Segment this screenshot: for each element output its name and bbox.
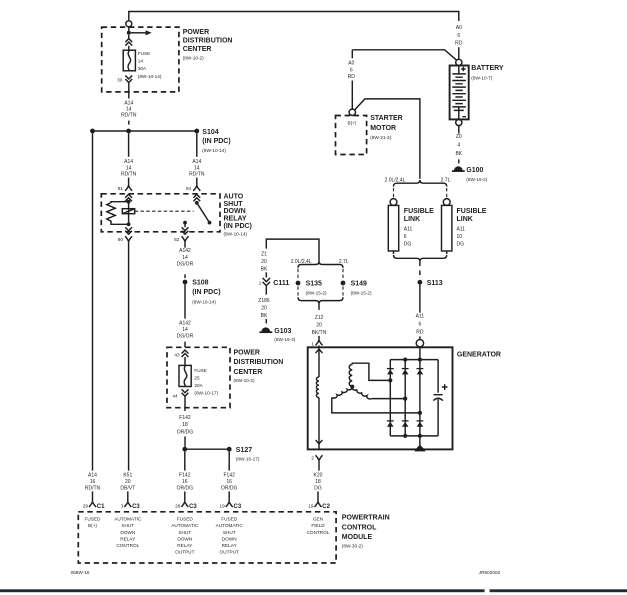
svg-text:FUSIBLE: FUSIBLE — [404, 208, 434, 215]
svg-text:S135: S135 — [306, 281, 322, 288]
rectifier leg 3 / output — [419, 347, 421, 449]
svg-text:DB/VT: DB/VT — [120, 485, 135, 491]
svg-text:OUTPUT: OUTPUT — [220, 550, 239, 555]
wire A14 14 RD/TN from PDC to S104 — [128, 83, 130, 99]
wire K51 20 DB/VT relay pin 80 to PCM — [128, 242, 130, 471]
svg-text:A11: A11 — [416, 313, 425, 319]
svg-text:19: 19 — [308, 504, 314, 509]
fusible link A11 10 DG — [443, 199, 450, 206]
auto shut down relay box (IN PDC) — [101, 194, 220, 232]
svg-text:BK: BK — [455, 151, 462, 157]
diode D3 — [417, 369, 424, 375]
svg-text:20: 20 — [261, 259, 267, 265]
generator pin 2 connector — [316, 455, 323, 461]
svg-text:K51: K51 — [123, 473, 132, 479]
svg-text:FUSED: FUSED — [221, 517, 238, 522]
splice S127 bus — [185, 448, 229, 450]
PCM pin 19 C2 connector — [315, 501, 322, 507]
PCM pin 3 function label — [114, 517, 142, 548]
wire F142 16 OR/DG S127 to PCM pin 19 — [228, 452, 230, 471]
fusible link A11 6 DG — [390, 199, 397, 206]
svg-text:(IN PDC): (IN PDC) — [202, 138, 230, 145]
svg-text:(8W-10-14): (8W-10-14) — [224, 231, 248, 236]
capacitor + sign — [442, 384, 448, 390]
svg-text:2.7L: 2.7L — [441, 177, 451, 183]
svg-text:1: 1 — [259, 281, 262, 286]
splice S113 — [418, 280, 423, 285]
svg-text:DG: DG — [457, 241, 465, 247]
wire Z186 20 BK — [265, 286, 267, 294]
svg-text:(8W-15-2): (8W-15-2) — [351, 291, 372, 296]
stator winding top branch — [352, 363, 388, 380]
svg-text:82: 82 — [174, 237, 180, 242]
connection loop Z1 to splice network — [266, 239, 319, 261]
svg-text:OR/DG: OR/DG — [177, 429, 194, 435]
relay switch blade — [197, 203, 210, 223]
svg-text:068W-16: 068W-16 — [71, 570, 90, 575]
junction dot S104 — [194, 129, 199, 134]
svg-text:2.7L: 2.7L — [339, 259, 349, 265]
svg-text:S108: S108 — [192, 280, 208, 287]
svg-text:(8W-10-2): (8W-10-2) — [183, 55, 204, 60]
fuse output chevrons — [125, 76, 132, 83]
svg-text:AUTO: AUTO — [224, 193, 244, 200]
junction dot middle — [126, 129, 131, 134]
svg-text:20A: 20A — [194, 383, 203, 388]
relay coil box — [122, 209, 134, 214]
svg-text:A14: A14 — [88, 473, 97, 479]
ground G103 — [259, 327, 272, 332]
junction dot left — [90, 129, 95, 134]
connector chevrons into fuse — [125, 39, 132, 46]
svg-text:FUSED: FUSED — [85, 517, 102, 522]
svg-text:16: 16 — [90, 479, 96, 485]
svg-text:6: 6 — [419, 321, 422, 327]
svg-text:S113: S113 — [427, 280, 443, 287]
merge brace to Z12 — [298, 297, 343, 304]
svg-text:STARTER: STARTER — [370, 115, 403, 122]
svg-text:RD/TN: RD/TN — [85, 485, 101, 491]
svg-text:20: 20 — [125, 479, 131, 485]
svg-text:BK: BK — [261, 266, 268, 272]
diode D1 — [387, 369, 394, 375]
svg-text:A14: A14 — [192, 159, 201, 165]
wire F142 18 OR/DG fuse to S127 — [184, 396, 186, 411]
capacitor plates — [434, 394, 443, 396]
svg-text:DOWN: DOWN — [120, 530, 135, 535]
PCM pin 19 C3 function label — [216, 517, 244, 555]
PDC2 pin 43 chevrons — [182, 350, 189, 357]
svg-text:2.0L/2.4L: 2.0L/2.4L — [385, 177, 406, 183]
relay pin 81 terminal chevrons — [125, 194, 132, 201]
svg-text:(8W-10-14): (8W-10-14) — [138, 74, 162, 79]
svg-text:CENTER: CENTER — [234, 369, 263, 376]
svg-text:C1: C1 — [97, 504, 105, 510]
svg-text:Z186: Z186 — [258, 298, 270, 304]
svg-text:(8W-30-2): (8W-30-2) — [342, 544, 363, 549]
svg-text:DOWN: DOWN — [224, 208, 246, 215]
svg-text:C2: C2 — [322, 504, 330, 510]
svg-text:C3: C3 — [189, 504, 197, 510]
fuse 14 30A — [128, 35, 130, 50]
coil bottom junction — [127, 222, 131, 226]
rectifier leg 1 — [389, 360, 391, 436]
svg-text:(8W-21-2): (8W-21-2) — [370, 135, 391, 140]
svg-text:3: 3 — [121, 504, 124, 509]
dashed stubs to merge brace — [298, 286, 343, 296]
svg-text:14: 14 — [182, 255, 188, 261]
svg-text:CONTROL: CONTROL — [342, 525, 377, 532]
svg-text:FIELD: FIELD — [311, 523, 325, 528]
svg-text:RD/TN: RD/TN — [189, 172, 205, 178]
svg-text:DG/OR: DG/OR — [177, 261, 194, 267]
svg-text:F142: F142 — [179, 415, 191, 421]
relay coil branch wire — [128, 201, 130, 224]
svg-text:A11: A11 — [457, 226, 466, 232]
svg-text:BATTERY: BATTERY — [471, 65, 504, 72]
battery (8W-10-7) — [450, 59, 504, 125]
svg-text:MODULE: MODULE — [342, 534, 373, 541]
wire A0 6 RD battery to starter branch — [352, 50, 456, 60]
node S104 label — [202, 129, 230, 153]
svg-text:14: 14 — [194, 165, 200, 171]
engine split brace to fusible links — [394, 180, 447, 187]
svg-text:RD: RD — [348, 74, 356, 80]
PCM pin 29 C1 connector — [89, 501, 96, 507]
svg-text:(IN PDC): (IN PDC) — [224, 223, 252, 230]
wire A14 14 RD/TN to relay pin 81 — [128, 133, 130, 156]
wire A14 16 RD/TN S104 to PCM — [92, 133, 94, 470]
rectifier leg 2 — [404, 360, 406, 436]
svg-text:6: 6 — [457, 33, 460, 39]
splice S108 — [183, 280, 188, 285]
generator box — [308, 347, 453, 449]
svg-text:RELAY: RELAY — [222, 543, 238, 548]
dashed stub to S149 — [342, 269, 344, 279]
powertrain control module box — [78, 512, 336, 563]
svg-text:FUSE: FUSE — [138, 51, 151, 56]
fuse 25 20A — [184, 357, 186, 365]
svg-text:GENERATOR: GENERATOR — [457, 351, 501, 358]
relay armature linkage (dashed) — [135, 210, 194, 212]
svg-text:14: 14 — [138, 59, 144, 64]
svg-text:16: 16 — [226, 479, 232, 485]
svg-text:6: 6 — [350, 67, 353, 73]
svg-text:20: 20 — [261, 305, 267, 311]
diode D2 — [402, 369, 409, 375]
terminal circle on PDC top — [126, 21, 132, 27]
svg-text:FUSIBLE: FUSIBLE — [457, 208, 487, 215]
svg-text:A0: A0 — [348, 61, 354, 67]
svg-text:RD/TN: RD/TN — [121, 172, 137, 178]
engine split brace to S135/S149 — [298, 261, 343, 268]
stator coil to lower-left branch — [332, 387, 353, 398]
splice S149 — [341, 281, 346, 286]
relay coil resistor — [107, 202, 129, 225]
svg-text:DG/OR: DG/OR — [177, 334, 194, 340]
svg-text:C3: C3 — [234, 504, 242, 510]
svg-text:18: 18 — [315, 479, 321, 485]
PCM pin 28 function label — [171, 517, 199, 555]
svg-text:Z1: Z1 — [261, 251, 267, 257]
svg-text:(8W-10-14): (8W-10-14) — [202, 148, 226, 153]
svg-text:BK: BK — [261, 313, 268, 319]
node label A0 6 RD (battery feed) — [455, 25, 463, 46]
wire F142 16 OR/DG S127 to PCM pin 28 — [184, 452, 186, 471]
relay pin 84 terminal chevrons — [193, 194, 200, 201]
svg-text:F142: F142 — [179, 473, 191, 479]
PCM pin 29 function label — [85, 517, 102, 529]
svg-text:FUSED: FUSED — [177, 517, 194, 522]
arrow feed to other circuits — [131, 32, 146, 34]
merge brace from fusible links — [394, 251, 447, 254]
relay pin 84 connector — [193, 185, 200, 191]
generator case ground — [415, 445, 424, 450]
generator field coil — [316, 377, 319, 398]
svg-text:14: 14 — [126, 165, 132, 171]
svg-text:DOWN: DOWN — [177, 536, 192, 541]
starter motor box (8W-21-2) — [336, 116, 367, 155]
svg-text:80: 80 — [118, 237, 124, 242]
svg-text:DG: DG — [314, 485, 322, 491]
svg-text:(8W-15-2): (8W-15-2) — [466, 177, 487, 182]
svg-text:AUTOMATIC: AUTOMATIC — [216, 523, 244, 528]
svg-text:(8W-10-7): (8W-10-7) — [471, 76, 492, 81]
wire top bus A0 from PDC to battery — [129, 12, 459, 22]
relay pin 82 connector — [182, 236, 189, 242]
svg-text:A142: A142 — [179, 320, 191, 326]
svg-text:SHUT: SHUT — [224, 201, 244, 208]
svg-text:A14: A14 — [124, 159, 133, 165]
svg-text:28: 28 — [175, 504, 181, 509]
connector C111 pin 1 — [263, 278, 270, 286]
svg-text:44: 44 — [172, 394, 178, 399]
svg-text:C3: C3 — [132, 504, 140, 510]
ground G100 — [452, 166, 465, 171]
svg-text:DISTRIBUTION: DISTRIBUTION — [234, 359, 284, 366]
svg-text:RELAY: RELAY — [177, 543, 193, 548]
svg-text:16: 16 — [182, 479, 188, 485]
svg-text:(8W-10-14): (8W-10-14) — [192, 300, 216, 305]
svg-text:AUTOMATIC: AUTOMATIC — [114, 517, 142, 522]
diode D4 — [387, 421, 394, 427]
svg-text:2.0L/2.4L: 2.0L/2.4L — [291, 259, 312, 265]
svg-text:F142: F142 — [223, 473, 235, 479]
svg-text:(8W-10-17): (8W-10-17) — [194, 391, 218, 396]
splice S104 bus — [93, 130, 197, 132]
rectifier bus top — [390, 359, 438, 361]
svg-text:A0: A0 — [456, 25, 462, 31]
svg-text:S104: S104 — [202, 129, 218, 136]
svg-text:1: 1 — [311, 341, 314, 346]
svg-text:S149: S149 — [351, 281, 367, 288]
splice S135 — [296, 281, 301, 286]
wire starter B+ to fusible links — [355, 99, 420, 179]
stator junction — [350, 385, 354, 389]
svg-text:Z0: Z0 — [456, 134, 462, 140]
field winding entry arrow — [316, 349, 323, 353]
svg-text:30: 30 — [117, 77, 123, 82]
bottom rule right — [490, 589, 627, 592]
svg-text:RD: RD — [455, 40, 463, 46]
relay switch common from pin 84 — [196, 201, 198, 202]
wire A14 14 RD/TN to relay pin 84 — [196, 133, 198, 156]
svg-text:CONTROL: CONTROL — [116, 543, 139, 548]
svg-text:DISTRIBUTION: DISTRIBUTION — [183, 38, 233, 45]
svg-text:6: 6 — [404, 234, 407, 240]
svg-text:29: 29 — [83, 504, 89, 509]
svg-text:A11: A11 — [404, 226, 413, 232]
PCM pin 3 C3 connector — [124, 501, 131, 507]
wire Z12 20 BK/TN to generator pin 1 — [318, 304, 320, 310]
wire Z0 4 BK battery to G100 — [458, 126, 460, 134]
svg-text:RD/TN: RD/TN — [121, 113, 137, 119]
svg-text:OR/DG: OR/DG — [177, 485, 194, 491]
svg-text:BK/TN: BK/TN — [312, 330, 327, 336]
svg-text:30A: 30A — [138, 66, 147, 71]
wire from terminal to junction — [128, 27, 130, 33]
svg-text:SHUT: SHUT — [223, 530, 236, 535]
svg-text:OUTPUT: OUTPUT — [175, 550, 194, 555]
svg-text:14: 14 — [182, 327, 188, 333]
diode D5 — [402, 421, 409, 427]
wire A142 14 DG/OR relay pin 82 to S108 — [184, 242, 186, 248]
svg-text:43: 43 — [174, 352, 180, 357]
svg-text:10: 10 — [457, 234, 463, 240]
svg-text:(8W-10-17): (8W-10-17) — [236, 457, 260, 462]
svg-text:2: 2 — [311, 455, 314, 460]
svg-text:MOTOR: MOTOR — [370, 125, 396, 132]
PCM pin 19 C3 connector — [226, 501, 233, 507]
svg-text:S127: S127 — [236, 447, 252, 454]
svg-text:B(+): B(+) — [348, 120, 357, 125]
svg-text:JR602002: JR602002 — [479, 570, 501, 575]
power distribution center box 2 (8W-10-2) — [167, 347, 230, 407]
power distribution center box (8W-10-2) — [102, 27, 179, 92]
relay pin 80 terminal chevrons — [125, 227, 132, 234]
svg-text:C111: C111 — [273, 280, 289, 287]
svg-text:(IN PDC): (IN PDC) — [192, 289, 220, 296]
svg-text:RELAY: RELAY — [224, 216, 247, 223]
wire A11 6 RD S113 to generator — [419, 285, 421, 313]
svg-text:POWER: POWER — [234, 350, 260, 357]
dashed stub to fusible link B — [446, 188, 448, 198]
relay pin 80 connector — [125, 236, 132, 242]
bottom rule left — [0, 589, 485, 592]
svg-text:81: 81 — [118, 186, 124, 191]
coil top junction — [127, 200, 131, 204]
svg-text:CONTROL: CONTROL — [307, 530, 330, 535]
svg-text:G100: G100 — [466, 167, 483, 174]
svg-text:K20: K20 — [314, 473, 323, 479]
svg-text:25: 25 — [194, 376, 200, 381]
svg-text:OR/DG: OR/DG — [221, 485, 238, 491]
wire Z1 20 BK — [261, 251, 268, 272]
relay pin 82 contact — [183, 221, 187, 225]
PCM pin 19 C2 function label — [307, 517, 330, 535]
svg-text:FUSE: FUSE — [194, 368, 207, 373]
wire K20 18 DG generator to PCM — [318, 461, 320, 471]
svg-text:SHUT: SHUT — [178, 530, 191, 535]
svg-text:CENTER: CENTER — [183, 46, 212, 53]
svg-text:(8W-10-2): (8W-10-2) — [234, 378, 255, 383]
diode D6 — [417, 421, 424, 427]
svg-text:A142: A142 — [179, 248, 191, 254]
svg-text:AUTOMATIC: AUTOMATIC — [171, 523, 199, 528]
PCM pin 28 C3 connector — [181, 501, 188, 507]
svg-text:4: 4 — [457, 143, 460, 149]
svg-text:Z12: Z12 — [315, 315, 324, 321]
generator output terminal — [416, 340, 423, 347]
PDC2 pin 44 chevrons — [182, 389, 189, 396]
svg-text:LINK: LINK — [404, 216, 420, 223]
relay pin 81 connector — [125, 185, 132, 191]
svg-text:SHUT: SHUT — [121, 523, 134, 528]
svg-text:(8W-15-3): (8W-15-3) — [274, 337, 295, 342]
junction node — [127, 31, 131, 35]
svg-text:RD: RD — [416, 329, 424, 335]
svg-text:G103: G103 — [274, 328, 291, 335]
wire A0 label segment above battery — [458, 47, 460, 59]
dashed stub to S135 — [297, 269, 299, 279]
svg-text:LINK: LINK — [457, 216, 473, 223]
stator coil to lower-right branch — [352, 387, 372, 399]
svg-text:B(+): B(+) — [88, 523, 97, 528]
wire to S113 — [419, 262, 421, 275]
svg-text:DOWN: DOWN — [222, 536, 237, 541]
svg-text:POWERTRAIN: POWERTRAIN — [342, 514, 390, 521]
field winding exit arrow — [318, 398, 320, 450]
bus junction dots — [403, 358, 407, 362]
svg-text:84: 84 — [186, 186, 192, 191]
svg-text:19: 19 — [219, 504, 225, 509]
svg-text:20: 20 — [316, 322, 322, 328]
generator pin 1 connector — [316, 340, 323, 346]
svg-text:18: 18 — [182, 422, 188, 428]
svg-text:(8W-15-2): (8W-15-2) — [306, 291, 327, 296]
capacitor branch — [437, 360, 439, 436]
rectifier bus bottom — [390, 435, 438, 437]
svg-text:DG: DG — [404, 241, 412, 247]
svg-text:GEN: GEN — [313, 517, 323, 522]
relay pin 82 terminal chevrons — [182, 227, 189, 234]
dashed stub to fusible link A — [393, 188, 395, 198]
svg-text:RELAY: RELAY — [120, 536, 136, 541]
wire A142 14 DG/OR S108 to PDC fuse 25 — [184, 284, 186, 318]
stator coil vertical — [349, 364, 352, 386]
svg-text:POWER: POWER — [183, 29, 209, 36]
